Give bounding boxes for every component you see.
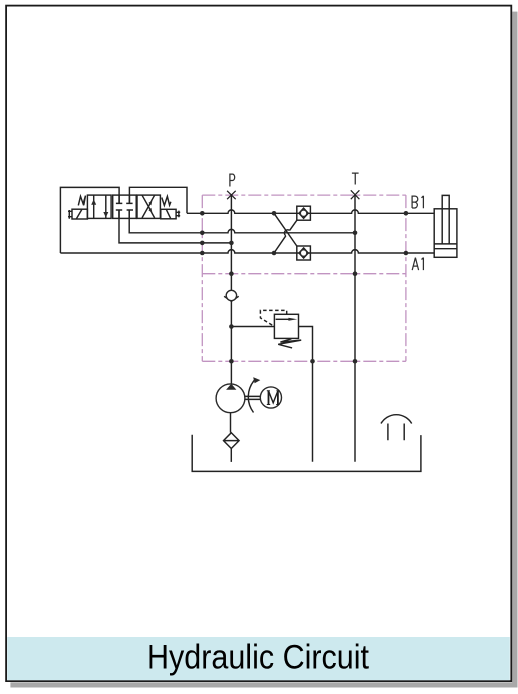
valve V1 solenoid right diagonal xyxy=(167,210,171,219)
valve V1 solenoid left diagonal xyxy=(76,210,81,219)
junction dot xyxy=(404,211,409,216)
breather B2 arc xyxy=(381,415,412,424)
pilot line to lower check valve xyxy=(274,213,297,246)
label P xyxy=(230,174,235,186)
valve V1 left connector xyxy=(68,210,72,219)
valve V1 box3 arrow head down-right xyxy=(148,208,152,213)
wire B1 line xyxy=(187,210,434,213)
junction dot xyxy=(200,241,205,246)
valve V1 box2 port stubs xyxy=(119,195,129,218)
junction dot xyxy=(353,231,358,236)
wire valve T port to T column xyxy=(129,210,355,233)
cylinder CYL1 body xyxy=(434,209,457,257)
junction dot xyxy=(272,211,277,216)
junction dot xyxy=(310,359,315,364)
valve V1 box3 cross arrows xyxy=(142,195,155,218)
relief valve RV1 body xyxy=(274,314,298,338)
manifold bottom edge xyxy=(202,360,406,362)
filter F1 lower line xyxy=(230,449,232,462)
junction dot xyxy=(272,251,277,256)
pump P1 outlet triangle xyxy=(226,384,236,390)
valve V1 solenoid right xyxy=(161,209,176,219)
check valve CV1 ball xyxy=(300,210,307,217)
svg-text:Hydraulic Circuit: Hydraulic Circuit xyxy=(147,638,369,676)
junction dot xyxy=(404,251,409,256)
junction dot xyxy=(353,271,358,276)
wire A1 line xyxy=(60,250,434,253)
check valve CV3 seat xyxy=(224,296,239,301)
filter F1 diamond xyxy=(224,433,240,449)
valve V1 position box 3 xyxy=(137,195,160,218)
wire relief drain column xyxy=(299,327,313,462)
wire relief inlet xyxy=(231,326,274,328)
check valve CV2 square xyxy=(297,246,311,260)
check valve CV1 poppet diamond xyxy=(299,208,308,218)
junction dot xyxy=(200,251,205,256)
check valve CV2 ball xyxy=(300,250,307,257)
junction dot xyxy=(200,211,205,216)
title band xyxy=(7,637,510,680)
wire valve P port to P column xyxy=(119,210,231,243)
cylinder CYL1 rod xyxy=(442,195,449,244)
valve V1 box1 down arrow head xyxy=(103,212,108,218)
pump motor shaft xyxy=(245,396,261,399)
rotation arrow head xyxy=(253,377,260,383)
valve V1 right connector xyxy=(176,211,180,218)
pump P1 circle xyxy=(216,384,245,413)
junction dot xyxy=(229,359,234,364)
manifold left edge xyxy=(201,195,203,361)
label M motor xyxy=(267,391,280,405)
junction dot xyxy=(200,231,205,236)
wire T column xyxy=(354,195,356,462)
valve V1 spring left xyxy=(78,196,85,206)
label A1 xyxy=(412,258,423,271)
relief valve RV1 pilot dashed xyxy=(260,310,286,326)
check valve CV3 ball xyxy=(226,290,236,300)
tank T1 xyxy=(192,435,421,472)
rotation arrow arc xyxy=(248,380,255,413)
check valve CV2 poppet diamond xyxy=(299,248,308,258)
relief valve RV1 spring xyxy=(278,339,301,348)
labels xyxy=(230,173,424,270)
check valve CV1 square xyxy=(297,206,311,220)
valve V1 box1 up arrow head xyxy=(91,199,96,205)
junction dot xyxy=(229,241,234,246)
junction dot xyxy=(229,324,234,329)
junction dot xyxy=(229,271,234,276)
label T xyxy=(352,173,359,184)
valve V1 box1 up arrow line xyxy=(93,195,95,218)
pilot line to upper check valve xyxy=(274,220,297,253)
wire port B loop xyxy=(129,187,187,213)
page shadow xyxy=(512,12,517,688)
cylinder CYL1 piston xyxy=(434,244,457,249)
manifold mid line xyxy=(202,273,406,275)
motor M1 circle xyxy=(260,387,281,408)
valve V1 position box 2 xyxy=(113,195,137,218)
relief valve RV1 arrow head xyxy=(288,318,297,321)
manifold right edge xyxy=(405,195,407,361)
junction dot xyxy=(353,359,358,364)
manifold boundary (magenta dashed) xyxy=(202,195,406,361)
port T plug X xyxy=(351,190,360,199)
pilot hop arc xyxy=(284,230,289,236)
filled arrow heads and circles xyxy=(216,210,307,413)
valve V1 box1 down arrow line xyxy=(105,195,107,218)
valve V1 position box 1 xyxy=(87,195,111,218)
manifold top edge xyxy=(202,194,406,196)
pump P1 suction line xyxy=(230,413,232,433)
valve V1 solenoid left xyxy=(72,209,87,219)
relief valve RV1 arrow xyxy=(276,318,290,320)
valve V1 spring right xyxy=(162,196,171,205)
port P plug X xyxy=(227,191,236,199)
valve V1 box3 arrow head up-right xyxy=(148,200,152,205)
label B1 xyxy=(412,196,423,209)
wire port A loop xyxy=(60,187,119,253)
wire P column xyxy=(230,195,232,384)
breather B2 ticks xyxy=(388,424,404,441)
valve V1 box2 blocked port bars xyxy=(116,203,133,210)
